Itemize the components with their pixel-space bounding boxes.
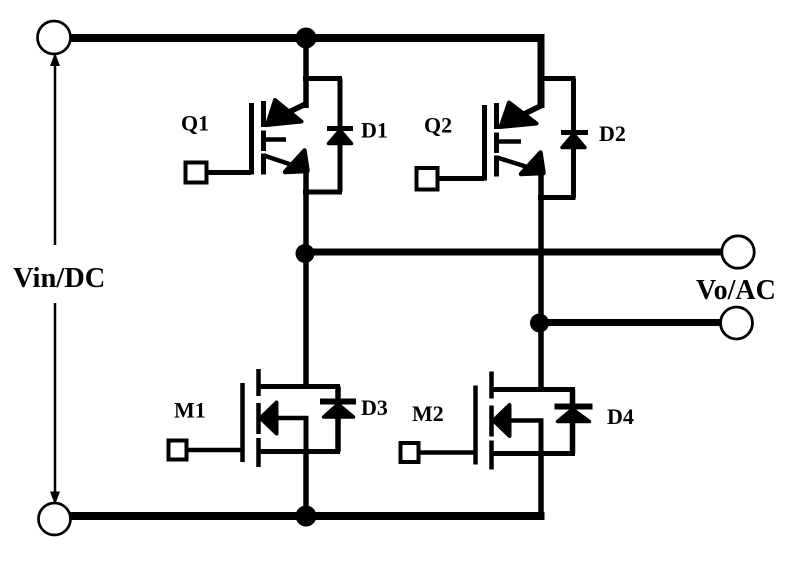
Q2 gate terminal square — [417, 168, 438, 190]
D4 anode triangle — [558, 409, 590, 422]
wire D1 branch lower — [338, 143, 343, 192]
Q2 channel top segment — [494, 103, 499, 129]
Q2 channel middle segment — [494, 133, 499, 154]
wire D4 branch lower — [570, 422, 576, 454]
Q2 body stub — [496, 139, 521, 144]
Q2 gate bar — [482, 105, 487, 181]
D3 anode triangle — [324, 404, 354, 417]
wire M2 drain vertical — [538, 319, 544, 392]
wire D4 branch upper — [570, 390, 576, 406]
svg-text:D2: D2 — [599, 121, 626, 146]
terminal Vo upper — [722, 236, 754, 268]
M2 gate terminal square — [401, 443, 419, 462]
wire D1 bottom link — [303, 190, 342, 195]
svg-text:M2: M2 — [412, 401, 444, 426]
M1 body arrow — [261, 403, 277, 434]
M1 channel middle segment — [256, 403, 261, 434]
D3 cathode bar — [320, 399, 356, 405]
M2 source link — [491, 451, 575, 456]
svg-text:Q1: Q1 — [181, 111, 209, 136]
wire D3 branch lower — [335, 417, 341, 452]
arrow Vin down — [51, 492, 60, 504]
svg-text:Q2: Q2 — [424, 113, 452, 138]
wire Vin measure line upper — [54, 60, 57, 245]
Q1 emitter arrow — [285, 151, 308, 173]
wire left leg emitter to mid node — [303, 168, 309, 258]
Q1 channel middle segment — [261, 131, 266, 152]
M1 gate terminal square — [169, 441, 187, 460]
arrow Vin up — [51, 54, 60, 66]
M1 channel top segment — [256, 369, 261, 396]
diode D1 — [303, 79, 353, 193]
wire D2 branch upper — [571, 79, 576, 132]
D1 cathode bar — [327, 126, 353, 131]
M2 body wire — [509, 418, 544, 423]
wire right leg emitter to mid node — [538, 170, 544, 327]
wire D2 top link — [538, 76, 576, 81]
transistor Q2 — [417, 103, 544, 190]
Q1 gate lead — [207, 170, 251, 175]
wire right leg top vertical — [538, 34, 545, 108]
svg-text:D4: D4 — [607, 404, 634, 429]
svg-text:Vin/DC: Vin/DC — [13, 263, 105, 294]
node bottom junction — [296, 506, 317, 527]
wire D3 branch upper — [335, 387, 341, 401]
terminal Vo lower — [721, 307, 753, 339]
M2 body arrow — [494, 405, 510, 436]
Q2 gate lead — [438, 176, 484, 181]
Q2 collector arrow — [501, 103, 537, 128]
Q2 emitter slant — [497, 158, 540, 172]
M1 drain link — [258, 384, 340, 389]
diode D4 — [555, 390, 593, 454]
wire top bus — [69, 34, 545, 42]
Q1 collector slant — [285, 103, 308, 114]
terminal Vin positive — [38, 21, 71, 54]
M1 body wire — [276, 416, 309, 421]
wire output lower line — [540, 319, 720, 326]
diode D3 — [320, 387, 356, 452]
M1 gate lead — [187, 448, 242, 453]
wire D2 bottom link — [538, 195, 576, 200]
diode D2 — [538, 79, 588, 198]
Q1 channel top segment — [261, 101, 266, 127]
wire M2 source to bottom bus — [538, 454, 544, 517]
Q2 channel bottom segment — [494, 156, 499, 177]
transistor Q1 — [186, 38, 308, 183]
D2 cathode bar — [561, 130, 588, 135]
M2 channel bottom segment — [489, 441, 494, 470]
M2 body to source vertical — [539, 421, 544, 456]
M2 gate bar — [473, 386, 478, 465]
M1 channel bottom segment — [256, 438, 261, 467]
M1 gate bar — [240, 383, 245, 462]
wire D2 branch lower — [571, 147, 576, 198]
transistor M1 — [169, 253, 341, 516]
node right leg midpoint — [530, 314, 549, 333]
wire output upper line — [305, 249, 722, 256]
M1 source link — [258, 449, 340, 454]
Q1 gate terminal square — [186, 163, 207, 183]
wire Q1 collector vertical — [303, 38, 309, 108]
wire M1 drain vertical — [303, 253, 309, 389]
svg-text:Vo/AC: Vo/AC — [696, 275, 776, 306]
D1 anode triangle — [329, 130, 352, 144]
M2 gate lead — [418, 450, 475, 455]
M2 channel top segment — [489, 372, 494, 399]
svg-text:M1: M1 — [174, 398, 206, 423]
D4 cathode bar — [555, 404, 593, 410]
svg-text:D1: D1 — [361, 118, 388, 143]
wire Vin measure line lower — [54, 303, 57, 497]
svg-text:D3: D3 — [361, 395, 388, 420]
transistor M2 — [401, 319, 576, 516]
wire D1 top link — [303, 76, 342, 81]
node top junction — [296, 28, 317, 49]
terminal Vin negative — [39, 503, 71, 535]
M2 channel middle segment — [489, 406, 494, 437]
wire D1 branch upper — [338, 79, 343, 128]
M1 body to source vertical — [304, 418, 309, 453]
D2 anode triangle — [562, 134, 585, 148]
M2 drain link — [491, 387, 575, 392]
Q1 collector arrow — [267, 100, 302, 125]
Q1 emitter slant — [264, 156, 304, 170]
Q1 gate bar — [249, 103, 254, 175]
node left leg midpoint — [296, 244, 315, 263]
Q2 emitter arrow — [521, 153, 544, 175]
wire Q2 collector slant — [520, 105, 543, 116]
Q1 channel bottom segment — [261, 154, 266, 175]
wire M1 source to bottom bus — [303, 452, 309, 517]
Q1 body stub — [263, 137, 286, 142]
wire bottom bus — [70, 512, 545, 520]
